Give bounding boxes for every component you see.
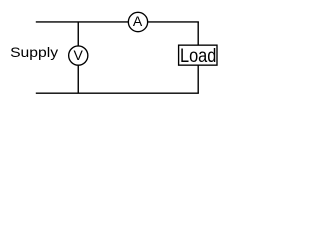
svg-text:Supply: Supply [10, 45, 58, 60]
svg-text:A: A [133, 13, 143, 29]
ammeter A1 [128, 12, 147, 31]
wire voltmeter drop lower [77, 65, 79, 93]
wire voltmeter drop upper [77, 22, 79, 46]
wire bottom [36, 92, 199, 94]
load box [179, 45, 217, 65]
voltmeter V1 [69, 46, 88, 65]
wire ammeter to top-right corner [148, 21, 199, 23]
wire right vertical lower [197, 65, 199, 93]
svg-text:V: V [74, 47, 84, 63]
svg-text:Load: Load [180, 45, 216, 67]
wire right vertical upper [197, 22, 199, 46]
wire top left segment [36, 21, 128, 23]
